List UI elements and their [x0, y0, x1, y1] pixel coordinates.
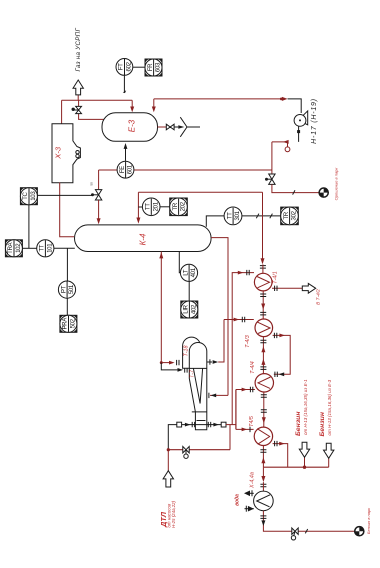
- vessel T-18 dome: [183, 337, 201, 368]
- wire T-18 vapor to manifold: [218, 320, 224, 363]
- wire pump black piping: [288, 99, 302, 142]
- valve flare: [166, 124, 174, 130]
- flange water in: [245, 506, 247, 512]
- flare fork symbol: [180, 117, 200, 137]
- vessel T-7 bottom nozzle line: [182, 424, 222, 426]
- instrument PRA 502: [60, 315, 77, 332]
- instrument TR 202: [170, 198, 188, 216]
- wire benzin drop 1: [304, 458, 306, 468]
- arrow arm T-4/5: [242, 428, 248, 432]
- arrow T-4/3 out: [279, 334, 285, 338]
- wire T-4/4 to T-4/5 vertical: [263, 392, 265, 427]
- instrument PT 501: [58, 281, 75, 298]
- svg-text:от Н-13 (15а,16,35) из Е-1: от Н-13 (15а,16,35) из Е-1: [303, 379, 308, 435]
- arrow into T-18: [161, 362, 169, 364]
- wire left cap loop to DTL junction: [168, 425, 177, 450]
- arrow arm T-4/4: [242, 388, 248, 392]
- arrow T-4/5 out: [279, 442, 285, 446]
- arrow nozzle left: [185, 423, 191, 427]
- wire LT401-LIR402: [188, 281, 190, 301]
- arrow into E-3 top left: [131, 100, 133, 107]
- wire T-4/4 to T-4/3 vertical: [262, 337, 264, 374]
- svg-text:К-4: К-4: [139, 233, 148, 245]
- svg-text:TR: TR: [283, 211, 290, 219]
- instrument FE 601: [117, 161, 134, 178]
- wire T-4/1 outlet right: [272, 287, 302, 289]
- svg-text:201: 201: [152, 201, 159, 211]
- wire recycle drop x=272: [271, 142, 273, 174]
- instrument TR 302: [281, 207, 299, 225]
- flange T-4/1 top: [260, 266, 266, 269]
- wire FT602-FR603: [133, 66, 145, 68]
- exchanger T-4/3: [255, 319, 273, 337]
- arrow up 1: [261, 346, 265, 352]
- svg-text:Т-18: Т-18: [183, 345, 189, 356]
- flange T-18 vapor: [209, 359, 211, 364]
- break tick park bottom: [305, 529, 307, 533]
- instrument TC 103: [20, 188, 37, 205]
- arrow into E-3 top right: [153, 99, 155, 107]
- wire pump discharge header y=98.9: [154, 98, 282, 100]
- arm to T-4/4 left: [236, 389, 255, 391]
- wire hot return header y=192.3: [138, 191, 262, 193]
- flange pair X-4.4a bottom: [260, 516, 266, 519]
- arrow into T-4/4 right: [279, 372, 285, 376]
- flange T-7 inlet: [185, 367, 187, 372]
- svg-text:Т4/5: Т4/5: [249, 415, 255, 427]
- svg-text:402: 402: [190, 304, 197, 314]
- svg-text:101: 101: [46, 243, 53, 253]
- break tick park line: [293, 190, 295, 194]
- svg-text:FR: FR: [147, 63, 154, 71]
- flange pair under T-4/4: [261, 395, 267, 398]
- svg-text:от Н-13 (15а,16,36) из Е-3: от Н-13 (15а,16,36) из Е-3: [327, 379, 332, 435]
- svg-text:TT: TT: [145, 203, 152, 210]
- instrument TT 201: [142, 198, 160, 216]
- wire gas header y=100.3: [62, 99, 133, 101]
- wire K-4 bottoms to reboiler: [160, 252, 162, 363]
- flange T-4/4 left: [250, 387, 252, 392]
- node benzin junction: [303, 466, 306, 469]
- terminator park top: [319, 188, 329, 198]
- svg-text:Бензин в парк: Бензин в парк: [366, 507, 371, 534]
- wire T-4/5 right outlet loop: [273, 444, 288, 468]
- column K-4: [75, 225, 212, 252]
- valve DTL manual: [183, 447, 189, 459]
- instrument LIR 402: [181, 301, 198, 318]
- vessel E-3: [102, 113, 158, 142]
- wire PT501-PRA502: [66, 298, 68, 315]
- svg-text:TC: TC: [22, 192, 29, 200]
- svg-text:50: 50: [90, 182, 94, 186]
- flange T-4/1 right: [275, 286, 277, 291]
- arrow flare: [178, 125, 184, 129]
- arm to T-4/5 left: [236, 428, 254, 430]
- svg-text:TRA: TRA: [7, 241, 14, 253]
- instrument FT602 stem: [123, 75, 125, 92]
- flange T-4/3 top: [260, 312, 266, 315]
- terminator park bottom: [354, 526, 364, 536]
- wire DTL valve run: [168, 449, 230, 451]
- flange left wall: [192, 422, 194, 427]
- wire DTL inlet drop: [167, 450, 169, 471]
- wire T-4/3 right loop down to T-4/4: [273, 335, 291, 374]
- wire E-3 bottom to FE601: [125, 149, 127, 161]
- wire T-4/1 left supply: [232, 273, 254, 425]
- arrow down X-4.4a: [261, 476, 265, 482]
- arrow reboiler vapor into K-4: [159, 252, 163, 258]
- svg-text:502: 502: [70, 318, 77, 328]
- flange T-4/5 left: [249, 427, 251, 432]
- valve gas line: [72, 106, 82, 113]
- cap square left: [177, 422, 182, 427]
- flange T-4/3 left: [242, 317, 244, 322]
- svg-text:Е-3: Е-3: [128, 119, 137, 132]
- wire T-18 vapor nozzle right: [207, 361, 212, 363]
- arrow T-18 vapor: [213, 360, 219, 364]
- wire X-4.4a bottom run to park: [263, 511, 354, 532]
- arrow nozzle right: [213, 423, 219, 427]
- instrument FT 602: [116, 59, 133, 76]
- svg-text:TT: TT: [226, 212, 233, 219]
- flange right wall: [208, 422, 210, 427]
- svg-text:103: 103: [30, 191, 37, 201]
- svg-text:TR: TR: [172, 202, 179, 210]
- arrow into T-7: [178, 368, 184, 372]
- wire TC103 down: [28, 205, 30, 249]
- wire DTL riser and arms: [235, 390, 237, 430]
- wire water out: [250, 492, 254, 494]
- wire E-3 gas outlet riser x=78.6: [79, 100, 104, 119]
- flange T-7 right: [208, 393, 210, 398]
- wire TT201 stub: [138, 206, 142, 208]
- svg-text:TT: TT: [39, 244, 46, 251]
- wire TC103 to valve: [37, 194, 92, 196]
- svg-text:LT: LT: [182, 269, 189, 276]
- svg-text:501: 501: [68, 284, 75, 294]
- break tick 1: [256, 214, 259, 219]
- svg-text:Т-4/4: Т-4/4: [250, 361, 256, 374]
- svg-text:102: 102: [15, 243, 22, 253]
- break tick 2: [270, 214, 273, 219]
- furnace tubes: [76, 151, 79, 154]
- wire T-7 right mid nozzle: [210, 394, 228, 396]
- flange T-18 inlet: [177, 360, 179, 365]
- wire hot header drop to T-4/1: [262, 192, 264, 258]
- valve TC control: [91, 190, 102, 200]
- exchanger T-4/1: [254, 273, 272, 291]
- wire T-4/1 to T-4/3: [262, 291, 264, 319]
- arrow up into T-4/5: [261, 457, 265, 463]
- condenser X-4.4a: [254, 491, 274, 511]
- wire E-3 flare line: [158, 126, 167, 128]
- svg-text:FT: FT: [118, 63, 125, 70]
- arrow water out: [244, 491, 250, 497]
- svg-text:Т-4/3: Т-4/3: [245, 335, 251, 348]
- svg-text:302: 302: [291, 210, 298, 220]
- flange T-4/1 left: [247, 270, 249, 275]
- node DTL junction: [167, 448, 170, 451]
- flange pair T-4/5 bottom: [260, 450, 266, 453]
- arrow outline benzin 1: [299, 442, 309, 457]
- wire TT301 stub to K-4 cap: [206, 216, 224, 227]
- valve recycle: [265, 174, 275, 184]
- flange pair X-4.4a top: [260, 484, 266, 487]
- arrow into T-7 right: [211, 394, 217, 398]
- exchanger T-4/4: [255, 374, 273, 392]
- wire manifold to T-4/3: [224, 319, 254, 321]
- svg-text:Х-4,4а: Х-4,4а: [250, 472, 256, 489]
- svg-text:Газ на УСРПГ: Газ на УСРПГ: [75, 28, 82, 72]
- svg-text:Н-17 (Н-19): Н-17 (Н-19): [311, 98, 318, 144]
- arrow T-4/1 left: [238, 271, 244, 275]
- wire fuel drop into X-3 top: [61, 100, 63, 124]
- svg-text:Бензин: Бензин: [295, 412, 302, 436]
- wire TC valve to K-4 arrow: [98, 200, 100, 219]
- vessel T-7 body: [189, 343, 207, 430]
- wire water in: [245, 508, 254, 510]
- wire right cap to riser: [226, 424, 236, 426]
- vessel T-7 internals: [189, 368, 207, 420]
- svg-text:Н-25 (24а,22): Н-25 (24а,22): [171, 500, 176, 528]
- wire into T-7 black: [161, 363, 177, 370]
- arrow outline benzin 2: [324, 443, 334, 458]
- flange T-4/1 bottom: [260, 294, 266, 297]
- svg-text:Х-3: Х-3: [53, 146, 62, 160]
- arrow water in: [248, 506, 254, 512]
- wire pump suction line: [272, 141, 288, 143]
- flange T-4/4 right: [275, 372, 277, 377]
- wire PT501 riser: [66, 248, 68, 281]
- wire T-4/5 bottom: [262, 446, 264, 468]
- wire TT101 to K-4: [54, 247, 75, 249]
- arrow into T-4/1 top: [261, 258, 265, 264]
- svg-text:LIR: LIR: [183, 304, 190, 313]
- flange water out: [251, 490, 253, 496]
- wire to park line: [272, 184, 319, 192]
- arrow up 2: [261, 359, 265, 365]
- pump H-17: [294, 111, 308, 126]
- instrument TRA 102: [5, 240, 22, 257]
- svg-text:301: 301: [234, 210, 241, 220]
- wire K-4 overhead draw: [211, 238, 228, 396]
- wire into X-4.4a: [262, 467, 264, 476]
- svg-text:Орошение в парк: Орошение в парк: [334, 167, 339, 201]
- arrow down into T-4/5: [262, 417, 266, 423]
- svg-text:Т-4/1: Т-4/1: [273, 271, 279, 284]
- flange pair above T-4/4: [260, 367, 266, 370]
- node junction reboiler feed: [160, 361, 163, 364]
- svg-text:401: 401: [190, 267, 197, 277]
- wire TRA102-TT101: [22, 247, 36, 249]
- arrow outline to T-4/2: [302, 283, 315, 293]
- node gas tee arrow to USRPG: [77, 95, 79, 100]
- vent lollipop on suction: [287, 142, 289, 147]
- arrow manifold: [234, 318, 240, 322]
- svg-text:FE: FE: [119, 166, 126, 173]
- instrument LT 401: [180, 264, 197, 281]
- junction pump suction: [297, 130, 300, 133]
- svg-text:вода: вода: [235, 494, 241, 506]
- arrow outline Gas to USRPG: [73, 80, 83, 95]
- svg-text:Т-7: Т-7: [189, 369, 195, 378]
- flange T-4/3 right: [274, 333, 276, 338]
- flange pair mid: [261, 410, 267, 413]
- svg-text:601: 601: [127, 164, 134, 174]
- wire TT201-TR202: [160, 206, 172, 208]
- arrow pump discharge right: [282, 97, 288, 101]
- furnace X-3: [52, 124, 80, 183]
- wire X-3 outlet to K-4 left end: [60, 183, 74, 237]
- wire FE601 run y=170: [99, 169, 272, 171]
- instrument TT 101: [37, 240, 54, 257]
- flange T-4/5 right: [275, 441, 277, 446]
- svg-text:Бензин: Бензин: [319, 412, 326, 436]
- cap square right: [221, 422, 226, 427]
- svg-text:PRA: PRA: [62, 317, 69, 330]
- wire benzin collection header: [263, 466, 328, 468]
- instrument TT 301: [224, 207, 242, 225]
- svg-text:602: 602: [126, 61, 133, 71]
- arrow return into K-4: [137, 192, 139, 218]
- wire TT301-TR302: [242, 215, 284, 217]
- svg-text:202: 202: [180, 201, 187, 211]
- svg-text:PT: PT: [60, 285, 67, 293]
- wire hot reflux drop to TC valve: [98, 170, 100, 189]
- svg-text:603: 603: [155, 62, 162, 72]
- exchanger T-4/5: [254, 427, 272, 445]
- arrow outline DTL inlet: [163, 471, 173, 487]
- instrument FR 603: [145, 59, 162, 76]
- valve benzin park: [291, 528, 298, 540]
- wire to flare: [174, 126, 178, 128]
- svg-text:В Т-4/2: В Т-4/2: [316, 289, 322, 305]
- flange pair under T-4/3: [260, 340, 266, 343]
- arrow pump suction: [283, 140, 289, 144]
- arrow down into T-4/3: [261, 304, 265, 310]
- wire LT401 riser: [179, 252, 180, 273]
- wire benzin drop 2: [328, 459, 330, 468]
